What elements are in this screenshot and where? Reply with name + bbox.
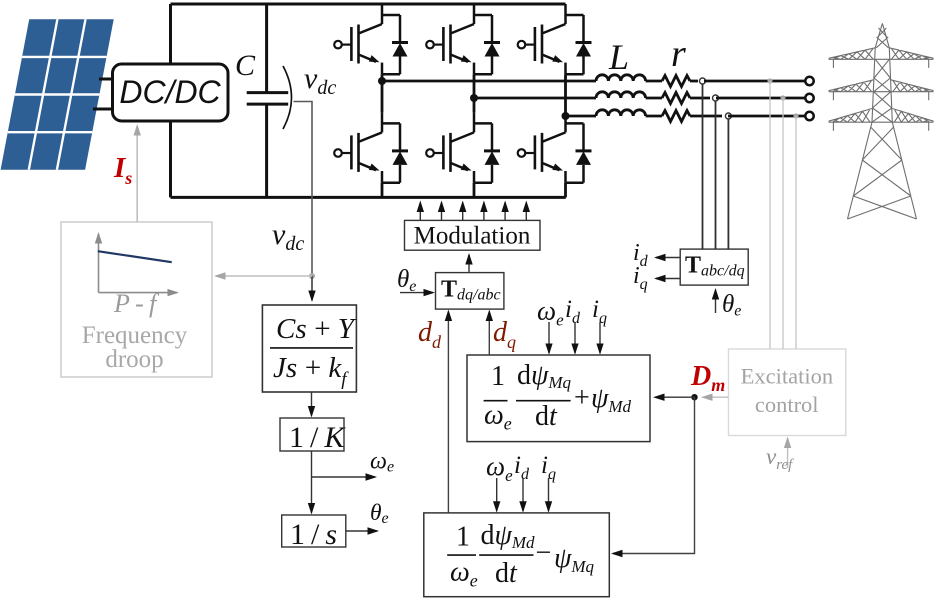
svg-text:C: C [235,49,256,82]
wire phase A [382,80,596,83]
wire Q3 emitter to node Cph [564,74,567,116]
wire tap C to Tabc/dq [727,119,729,249]
grid terminal A [805,77,813,85]
wire omega_e branch [312,476,376,478]
transform block Tabc/dq [680,249,748,285]
inductor L phase C [596,110,646,116]
wire A tap to grid terminal [704,80,805,83]
node vdc junction [309,273,315,279]
wire phase B [474,97,596,100]
svg-text:dt: dt [535,401,558,432]
svg-text:Frequency: Frequency [82,322,188,349]
integrator block 1/s [282,515,346,551]
wire id out of Tabc/dq [656,257,680,259]
vdc measurement paren [283,66,292,129]
wire C coil to resistor [646,115,662,118]
wire theta_e out of 1/s [346,530,377,532]
tap terminal phase A [700,78,706,84]
wire tap B to Tabc/dq [715,101,717,249]
wire iq out of Tabc/dq [656,278,680,280]
wire phase B to excitation [782,98,784,349]
gate signal arrows [420,203,526,221]
wire C resistor to tap [690,115,722,118]
wire C tap to grid terminal [728,115,805,118]
wire Tdq/abc to Modulation [468,255,470,273]
wire theta_e arrow into Tdq/abc [400,292,433,294]
node on phase A for excitation [767,78,772,83]
capacitor C1 plates [247,93,289,105]
wire PV to DC/DC lower [93,108,114,111]
resistor r phase A [662,76,690,87]
excitation control block [729,349,846,436]
dc-link rectangle (left edge, top rail, bottom rail) [171,4,566,197]
inductor L phase B [596,92,646,98]
wire node B to Q5 [473,98,476,112]
wire phase A to excitation [769,81,771,349]
svg-text:1: 1 [491,361,505,392]
wire Q6 to bottom rail [564,183,567,198]
modulation block [405,220,541,250]
node Dm [691,394,697,400]
wire phase C [566,115,597,118]
svg-text:DC/DC: DC/DC [119,74,221,110]
transform block Tdq/abc [436,273,504,310]
converter DC/DC [113,64,229,121]
resistor r phase C [662,111,690,122]
tap terminal phase C [725,113,731,119]
svg-text:r: r [671,33,686,75]
wire B coil to resistor [646,97,662,100]
wire A coil to resistor [646,80,662,83]
wire dd up to Tdq/abc [447,312,449,513]
wire B resistor to tap [690,97,710,100]
svg-text:−: − [536,538,552,569]
svg-text:Cs + Y: Cs + Y [276,313,357,345]
wire node C to Q6 [564,112,567,116]
wire inertia to 1/K [311,392,313,416]
svg-text:Modulation: Modulation [414,223,531,250]
equation block q-axis [467,355,650,442]
wire vdc sense lower arrow [311,276,313,300]
svg-text:P - f: P - f [113,289,160,318]
svg-text:Excitation: Excitation [741,364,833,389]
tap terminal phase B [713,95,719,101]
wire vdc sense [294,102,313,277]
wire 1/K down to 1/s [311,451,313,513]
IGBT Q5 [426,112,500,182]
IGBT Q2 [426,4,500,74]
IGBT Q1 [334,4,408,74]
wire droop to DC/DC (Is) [136,126,138,222]
IGBT Q3 [518,4,592,74]
transmission tower [829,23,934,219]
svg-text:1 / s: 1 / s [290,518,337,551]
wire Dm into q-axis block [655,396,695,398]
wire vref into excitation [787,439,789,469]
capacitor C1 branch wires [265,4,268,197]
grid terminal C [805,112,813,120]
wire excitation to Dm node (grey) [703,396,729,398]
svg-text:1: 1 [456,522,470,553]
wire PV to DC/DC upper [99,78,114,81]
wire A resistor to tap [690,80,698,83]
wire Q1 emitter to node A [381,74,384,81]
wire dq up to Tdq/abc [488,312,490,356]
svg-text:+: + [574,383,590,414]
inductor L phase A [596,75,646,81]
resistor r phase B [662,93,690,104]
node on phase B for excitation [780,95,785,100]
arrows into d-axis block [497,478,549,511]
wire tap A to Tabc/dq [702,84,704,249]
svg-text:1 / K: 1 / K [289,421,346,454]
svg-text:dt: dt [495,558,518,589]
svg-text:droop: droop [105,346,163,373]
node C [562,112,570,120]
wire Q2 emitter to node B [473,74,476,98]
svg-text:control: control [755,392,819,417]
equation block d-axis [424,513,610,597]
node B [470,94,478,102]
wire Q5 to bottom rail [473,183,476,198]
wire node A to Q4 [381,81,384,112]
wire Dm down to d-axis block [613,397,695,553]
wire theta_e into Tabc/dq [715,290,717,313]
wire Q4 to bottom rail [381,183,384,198]
frequency droop block [61,222,212,377]
wire B tap to grid terminal [716,97,805,100]
virtual inertia block (Cs+Y)/(Js+kf) [262,305,356,392]
IGBT Q6 [518,112,592,182]
wire vdc to droop [216,275,312,277]
gain block 1/K [280,418,346,454]
grid terminal B [805,94,813,102]
node on phase C for excitation [793,113,798,118]
wire phase C to excitation [795,116,797,349]
arrows into q-axis block [549,322,600,353]
PV panel [1,19,114,170]
node A [378,77,386,85]
svg-text:L: L [608,37,629,77]
IGBT Q4 [334,112,408,182]
